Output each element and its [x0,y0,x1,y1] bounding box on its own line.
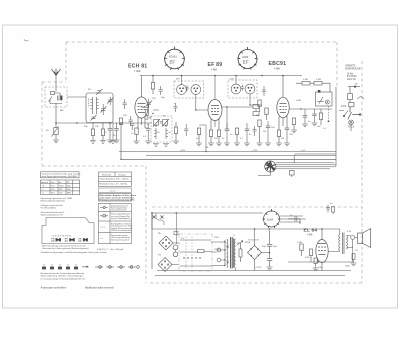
arrow [82,266,88,268]
filter capacitor C51 [267,253,272,268]
svg-text:1M: 1M [263,131,266,133]
svg-text:+78V: +78V [252,150,258,152]
svg-text:B250: B250 [245,242,251,244]
svg-text:EL84: EL84 [267,218,274,222]
ground [257,143,263,146]
capacitor C9 [130,124,134,130]
oscillator dots [152,113,166,127]
svg-text:Skalenseilführung: Seilro: Skalenseilführung: Seilrolle 2 Umschling… [41,275,85,278]
chassis dashed border segment x66 [65,42,67,82]
resistor R22 [146,110,149,120]
node [214,75,216,77]
chassis dashed border y82 [42,81,66,83]
psu dashed top border [152,206,362,208]
wire [147,135,149,141]
wire DIN to switch [172,243,179,265]
svg-text:bis: bis [59,182,62,184]
dense header block [98,194,137,202]
IF transformer 1 dashed box [174,81,204,98]
IF2 coil a [231,84,241,94]
ukw cell [98,188,131,193]
resistor R3 [101,123,104,141]
ground [173,141,179,144]
tube socket diagram EF89 [238,47,258,70]
resistor R23 [253,105,259,109]
wire agc drop [120,123,122,160]
svg-text:Modification rights reserved!: Modification rights reserved! [85,287,114,290]
detector section border [335,87,337,166]
svg-text:VDE-Vorschrift beachten: VDE-Vorschrift beachten [111,229,132,232]
svg-text:f 468: f 468 [307,234,313,237]
switch unit dash-dot box [179,234,212,271]
resistor R17 [319,109,322,125]
wire bridge dc [255,229,270,271]
antenna [52,69,61,76]
svg-text:5000: 5000 [345,266,351,268]
node [321,228,323,230]
resistor R2 [91,123,94,141]
svg-text:= = =: = = = [100,227,106,229]
contact dots [183,257,200,258]
svg-text:Schaltbild mit Spannungs- und: Schaltbild mit Spannungs- und Widerstand… [41,251,108,254]
wire antenna to bus [55,103,57,123]
svg-text:f 468: f 468 [135,69,141,73]
transformer core [231,237,234,269]
svg-text:Nennspannung 220 V: Nennspannung 220 V [111,239,130,241]
tube pins EF89 [211,119,219,130]
antenna input transformer [49,92,63,104]
resistor R16 [314,81,330,92]
chassis dashed connector x146 [145,166,147,283]
bridge rectifier [248,246,262,260]
output transformer primary [339,234,340,251]
tone capacitor C53 [326,205,330,213]
wire hop arc [358,97,364,99]
junction dots on rails [120,75,263,160]
psu left rail [151,212,153,269]
antenna coupling unit dashed box [45,87,67,107]
oscillator coil assembly dashed box [151,116,172,142]
capacitor C15 [285,128,290,143]
ground [267,267,273,270]
capacitor C18 [146,124,150,135]
fuse resistor [237,243,242,262]
svg-text:EF 89: EF 89 [208,62,223,68]
chassis dashed border x337 [336,42,338,87]
svg-text:–1,2V: –1,2V [300,150,306,152]
wire IF1 drop [182,76,209,111]
svg-text:ohne Signal (gleichstromm.) Ri: ohne Signal (gleichstromm.) Ri=10MΩ [42,175,78,178]
wire lamp [350,125,352,131]
oscillator trimmer arrows [153,119,169,127]
svg-text:Prüfung bei Zimmertemperatur 2: Prüfung bei Zimmertemperatur 20°C [99,199,135,202]
resistor R10 [197,128,200,143]
resistor R11 [258,100,261,112]
svg-text:B 250 C75: B 250 C75 [249,240,260,242]
ground [216,143,222,146]
tube row symbol 4 [66,265,70,270]
resistor R4 [119,118,122,125]
node bus-pot [55,122,57,124]
chassis terminal X2 [161,216,164,219]
ground [134,141,140,144]
capacitor C10 [159,86,163,95]
wire feedback [288,248,353,263]
output pentode EL84 [316,240,328,263]
wire switch to transformer [211,242,225,266]
legend symbol 2 [100,215,108,217]
svg-text:EF89: EF89 [243,56,249,59]
capacitor C12 [245,123,250,143]
resistor R13 [258,120,261,143]
symbol legend table [98,204,131,244]
value labels RF [46,79,327,153]
svg-text:Voltages measured with: Voltages measured with [41,204,64,207]
wire heater rail [157,268,351,271]
ground [107,140,113,143]
svg-text:Von: Von [51,182,54,184]
svg-text:EF: EF [243,60,249,65]
pickup socket DIN2 [158,258,172,272]
svg-text:Bereich: Bereich [41,182,48,184]
svg-text:System-Impedanzen 10.: System-Impedanzen 10. [41,214,64,217]
oscillator extra labels [147,116,172,135]
svg-text:EBC91: EBC91 [269,61,287,67]
variable capacitor [100,104,106,115]
capacitor C4 [108,123,113,140]
trimmer capacitor C6 [107,97,114,105]
socket dots b [65,238,68,241]
wire lower rail [155,275,345,277]
potentiometer P1 [173,245,178,257]
value labels PSU [158,203,358,269]
node [205,151,206,152]
svg-text:Röhrenvoltmeter (Netzteil): Röhrenvoltmeter (Netzteil) [41,200,66,203]
resistor R18 [348,87,353,103]
pilot lamp [349,120,354,125]
tube row symbol 1 [42,265,46,270]
ground [100,141,106,144]
svg-text:6M: 6M [256,115,259,117]
chassis dashed right border [361,61,363,283]
node rail junction [152,75,154,77]
svg-text:Gleichstrom-Ersatzung R.: Gleichstrom-Ersatzung R. [41,211,65,214]
svg-text:2M: 2M [281,138,284,140]
socket dots a [51,238,54,241]
svg-text:+85V: +85V [180,150,186,152]
tube pins EBC91 [279,116,287,131]
ground [53,140,59,143]
svg-text:Si-Abt: Si-Abt [347,73,354,76]
wire EBC plate [282,76,284,98]
grid resistor R50 [300,244,303,256]
node [176,212,178,214]
ground [284,143,290,146]
svg-text:0,5M: 0,5M [297,242,302,244]
wire avc rail [121,156,336,160]
wire ground bus [56,122,152,124]
IF transformer 2 dashed box [228,80,257,98]
tube socket diagram EL84 [263,209,281,228]
svg-text:UC working voltage Federz: UC working voltage Federzug Seillänge 82… [41,277,86,280]
capacitor C8 [129,116,133,126]
chassis outline drawing [42,218,94,244]
svg-text:MHz: MHz [67,193,71,195]
wire agc rail [119,151,336,153]
resistor R5 [135,128,138,141]
oscillator padder [154,120,168,126]
node [300,108,301,109]
IF1 coil a [177,85,187,95]
svg-text:+270V: +270V [255,267,262,269]
svg-text:0,96U·f² = T · Uef + 500 µµF: 0,96U·f² = T · Uef + 500 µµF [97,248,124,251]
duo-diode-triode EBC91 [277,97,289,117]
node [269,252,271,254]
junction dots on bus [76,122,122,124]
selector arrow [237,241,244,246]
svg-text:osz: osz [145,119,148,121]
potentiometer antenna trimmer [52,123,59,140]
capacitor C16 [312,109,317,123]
svg-text:U = V: U = V [110,190,116,192]
ground [291,130,297,133]
svg-text:ECH81: ECH81 [169,56,177,59]
tube row symbol 3 [58,265,62,270]
ground [90,141,96,144]
node [151,212,153,214]
svg-text:V.T.V.M. (10MΩ): V.T.V.M. (10MΩ) [41,208,56,210]
svg-text:0,5M: 0,5M [296,100,301,102]
ground [208,143,214,146]
tone switch [339,111,348,117]
ground [234,143,240,146]
node [269,228,271,230]
resistor R12 [265,108,268,120]
wire screen rail [140,75,302,77]
resistor R9 [235,128,238,143]
svg-text:ECH 81: ECH 81 [128,64,147,70]
socket group 2 [69,239,75,241]
legend symbol 1 [100,206,108,208]
speaker [358,229,371,248]
wire detector out [289,108,332,110]
note box [41,172,80,178]
svg-text:220V: 220V [214,237,220,239]
wire EF89 plate [214,76,216,100]
resistor R21 [292,118,295,130]
trimmer on box [96,89,103,95]
node [254,228,256,230]
coupling capacitor C52 [288,216,300,224]
svg-text:Unterseite des Chassis gesehen: Unterseite des Chassis gesehen (Bestücku… [42,247,89,250]
resistor R24 [253,109,259,116]
ground [244,143,250,146]
svg-text:ersetzen (Brandgefahr): ersetzen (Brandgefahr) [111,217,131,220]
transformer terminal dots [224,241,225,266]
resistor R8 [217,130,220,143]
chassis dashed top border [66,41,337,43]
wire coupling to filter [67,96,86,98]
output transformer secondary [347,236,348,250]
resistor R7 [209,130,212,143]
ground [110,141,116,144]
svg-text:Gemessen mit Röhrenvoltm. geg.: Gemessen mit Röhrenvoltm. geg. Chassis [42,172,81,175]
node [226,106,227,107]
wire plate to rail [141,76,143,98]
input bandfilter box [86,93,113,123]
ground [224,143,230,146]
ground [196,143,202,146]
svg-text:f 468: f 468 [211,68,217,72]
ground [312,123,318,126]
capacitor C17 [303,109,308,124]
wire b+ top rail [152,213,340,229]
page corner mark [24,40,29,41]
svg-text:AM: AM [60,109,63,112]
svg-text:Tr: Tr [233,234,235,237]
svg-text:0,5M: 0,5M [316,79,321,81]
socket EL84 wiring fan [280,216,307,222]
switch contacts [180,237,211,270]
switch power [348,107,361,120]
capacitor C20 [174,103,178,112]
node [282,75,284,77]
svg-text:Betriebsart/Lage der Drehkond: Betriebsart/Lage der Drehkondensator-Ant… [41,272,85,275]
coil L1 [89,97,93,114]
mains transformer primary [225,239,229,268]
svg-text:nicht überbrücken!: nicht überbrücken! [111,209,127,212]
resistor R51 [309,249,312,262]
coil L2 [97,97,99,114]
resistor R52 [332,207,335,215]
resistor R6 [151,76,154,95]
oscillator coil [154,128,168,139]
wire oscillator drop [199,125,206,152]
wire [112,123,114,141]
resistor R14 [277,130,280,143]
pentode EF89 [208,99,222,120]
resistor R15 [296,81,314,85]
voltage selector [217,248,224,262]
svg-text:Änderungen vorbehalten!: Änderungen vorbehalten! [41,287,67,290]
wire plate [321,229,323,239]
capacitor IF1 [185,85,188,91]
output transformer core [343,233,345,255]
voltage table [98,172,131,187]
capacitor C7 [123,99,127,109]
tube row symbol 2 [50,265,54,270]
capacitor C14 [266,121,271,143]
diode capacitor C13 [262,86,266,96]
resistor R19 [349,103,354,107]
svg-text:470k: 470k [341,106,347,108]
tube socket diagram ECH81 [164,47,185,70]
pickup socket DIN1 [159,236,173,250]
tube socket diagram EBC91 wiring [265,161,276,172]
chassis terminal X1 [153,216,156,219]
resistor R20 [174,122,177,141]
svg-text:U-Batt. Anodensp. 90V – 100 Ma: U-Batt. Anodensp. 90V – 100 Ma [99,177,129,180]
tube pins ECH81 [138,116,148,128]
svg-text:EF: EF [170,60,176,65]
socket dots c [78,238,81,241]
ground [313,268,319,271]
IF1 coil b [191,85,201,95]
socket group 3 [83,239,88,241]
speaker terminal [351,236,355,240]
chassis dashed bottom-left border [42,165,146,167]
capacitor C21 [253,126,257,136]
wire pot feed [175,213,177,244]
ground [302,124,308,127]
svg-text:0,3M: 0,3M [303,79,308,81]
ground [114,140,120,143]
trimmer capacitor [91,115,97,121]
measurement table [41,180,80,195]
svg-text:kHz: kHz [67,189,70,191]
volume control box [316,90,333,122]
capacitor IF2 [241,85,244,91]
IF2 coil b [245,84,255,94]
capacitor C11 [225,123,230,143]
wire hop [156,213,164,225]
mixer wire [142,108,160,111]
svg-text:Europa: Europa [119,173,127,176]
ground [351,263,357,266]
capacitor C5 [114,123,119,140]
ground oscillator b [163,144,169,147]
svg-text:Elemente: Elemente [102,173,112,176]
svg-text:220V AC: 220V AC [347,78,356,81]
filter capacitor C50 [267,231,272,253]
wire EF89 anode out [222,107,253,129]
switch feed box [174,231,178,235]
svg-text:1 2 3 4 5 6 7 8 9 10 11: 1 2 3 4 5 6 7 8 9 10 11 [52,236,73,238]
triode-heptode ECH81 [135,97,148,118]
chassis dashed left border [41,82,43,166]
ground [145,141,151,144]
cathode network [314,258,322,271]
wire b+ to primary [328,229,340,252]
svg-text:ANSPRÜCHE: ANSPRÜCHE [345,67,361,70]
ground oscillator [153,144,159,147]
wire antenna lead [55,76,57,92]
svg-text:f 468: f 468 [274,67,280,71]
psu dashed bottom border [150,282,362,284]
wire secondary to speaker [347,236,358,248]
tube row symbol 5 [74,265,78,270]
socket group 1 [56,239,62,241]
wire grid [148,117,151,119]
ground [265,143,271,146]
padder capacitor [146,99,152,109]
svg-text:B 210 Ba: B 210 Ba [347,76,357,78]
socket wiring fan [258,154,336,176]
node [181,75,183,77]
wire mains tap [348,86,360,88]
ground [276,143,282,146]
dial cord symbols [95,266,139,269]
capacitor C54 [352,254,355,264]
svg-text:Spannungen gemessen mit 10MΩ: Spannungen gemessen mit 10MΩ [41,197,73,200]
mains transformer secondary [234,239,235,268]
node [235,75,237,77]
wire IF2 drop [236,76,262,106]
capacitor C19 [184,124,188,136]
jack symbol [290,171,295,178]
svg-text:Heizbatterie-Sp. 1,4V – 400 Ma: Heizbatterie-Sp. 1,4V – 400 Ma [99,182,128,185]
